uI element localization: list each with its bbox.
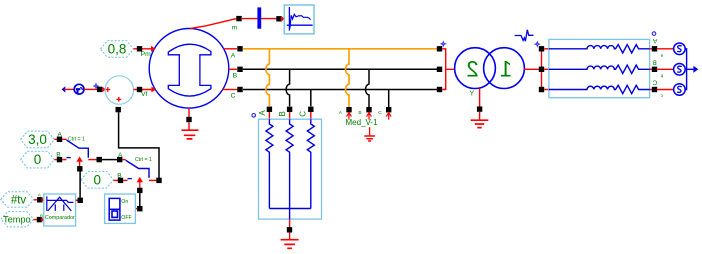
arrow into Vf pin bbox=[151, 87, 156, 93]
node on/off out bbox=[137, 206, 142, 211]
svg-text:1: 1 bbox=[500, 57, 512, 82]
svg-text:OFF: OFF bbox=[121, 215, 131, 221]
node exciter input bbox=[97, 87, 102, 92]
stub secondary A bbox=[544, 48, 549, 50]
tap wire C to meter bbox=[388, 90, 390, 108]
stub 0 to node bbox=[54, 159, 58, 161]
node bus right B bbox=[437, 67, 442, 72]
machine neutral wire bbox=[188, 108, 190, 117]
node source control bbox=[116, 107, 121, 112]
svg-text:0,8: 0,8 bbox=[108, 42, 127, 57]
stub RL out B bbox=[650, 68, 657, 70]
node secondary A bbox=[539, 46, 544, 51]
wire machine top to m node bbox=[190, 19, 237, 29]
arrow into source bbox=[102, 87, 106, 92]
svg-text:On: On bbox=[121, 199, 128, 205]
node switch2 B bbox=[118, 178, 123, 183]
svg-text:a: a bbox=[660, 53, 663, 58]
marker sparkle (bus right) bbox=[441, 42, 445, 46]
scope/plot block bbox=[284, 5, 314, 34]
wire transformer neutral bbox=[479, 88, 481, 107]
transformer primary riser wire bbox=[442, 49, 455, 90]
node ctrl1 junction bbox=[77, 166, 82, 171]
svg-text:Comparador: Comparador bbox=[45, 215, 75, 221]
node load B bbox=[287, 107, 292, 112]
svg-text:A: A bbox=[58, 132, 63, 139]
svg-text:A: A bbox=[652, 37, 657, 44]
node A bbox=[237, 46, 242, 51]
ground reference (Med_V-1) bbox=[364, 127, 375, 141]
machine pin stub A bbox=[224, 48, 238, 50]
value label 0 (switch2 B) bbox=[81, 172, 114, 189]
svg-text:Med_V-1: Med_V-1 bbox=[346, 118, 379, 127]
AC source Vb bbox=[674, 64, 686, 76]
svg-text:#tv: #tv bbox=[11, 195, 27, 207]
load feeder stub B bbox=[289, 112, 291, 119]
wire to source C bbox=[657, 89, 674, 91]
bus wire A (orange) bbox=[243, 48, 437, 50]
wire transformer secondary bbox=[524, 68, 539, 70]
node transformer neutral bbox=[477, 106, 482, 111]
wire to source B bbox=[657, 68, 674, 70]
node RL out C bbox=[652, 87, 657, 92]
polarity + (left) bbox=[105, 87, 110, 92]
svg-text:B: B bbox=[278, 111, 287, 116]
transformer T1 winding 1 bbox=[484, 48, 525, 89]
svg-text:C: C bbox=[378, 110, 382, 116]
node load C bbox=[308, 107, 313, 112]
meter probe B bbox=[367, 113, 372, 120]
wire Pm bbox=[134, 48, 152, 50]
data tap bar bbox=[257, 7, 261, 28]
stub secondary C bbox=[544, 89, 549, 91]
stub RL out C bbox=[650, 89, 657, 91]
node meter C bbox=[386, 107, 391, 112]
meter probe A (red arrow) bbox=[347, 113, 352, 120]
svg-text:C: C bbox=[231, 93, 236, 100]
svg-text:Ctrl = 1: Ctrl = 1 bbox=[68, 136, 85, 142]
wire ctrl2 to on/off bbox=[139, 193, 141, 206]
node switch2 A bbox=[117, 157, 122, 162]
on/off switch block bbox=[105, 194, 136, 223]
node meter A bbox=[346, 107, 351, 112]
switch1 B contact bbox=[67, 157, 71, 159]
node m bbox=[236, 16, 241, 21]
wire to ground bbox=[188, 122, 190, 130]
switch2 B contact bbox=[128, 178, 132, 180]
svg-text:m: m bbox=[232, 24, 238, 31]
marker sparkle bbox=[94, 84, 98, 88]
switch2 control arrow bbox=[138, 178, 143, 188]
load feeder stub A bbox=[268, 112, 270, 119]
node comparator A bbox=[37, 197, 42, 202]
secondary riser wire bbox=[541, 49, 543, 90]
signal label #tv bbox=[1, 192, 34, 208]
wire meter to node bbox=[84, 88, 97, 90]
node secondary B bbox=[539, 67, 544, 72]
load star point wire bbox=[269, 209, 310, 220]
node RL out B bbox=[652, 67, 657, 72]
switch1 control arrow bbox=[77, 157, 82, 166]
value label 0,8 (Pm setpoint capsule) bbox=[101, 41, 134, 58]
breaker squiggle icon bbox=[515, 30, 534, 41]
node load neutral bbox=[287, 227, 292, 232]
wire to source A bbox=[657, 48, 674, 50]
marker circle (RL right) bbox=[652, 32, 656, 36]
switch1 output stub bbox=[88, 159, 97, 161]
node switch1 B bbox=[57, 157, 62, 162]
node bus right A bbox=[437, 46, 442, 51]
ground (transformer) bbox=[471, 120, 489, 127]
svg-text:B: B bbox=[358, 110, 361, 116]
stub 3,0 to node bbox=[54, 138, 58, 140]
tap wire C to load bbox=[310, 90, 312, 107]
switch2 wiper bbox=[126, 160, 149, 178]
svg-text:B: B bbox=[56, 152, 61, 159]
bus wire C bbox=[243, 89, 437, 91]
resistor load phase B bbox=[286, 119, 293, 208]
node switch2 out bbox=[156, 178, 161, 183]
node meter B bbox=[366, 107, 371, 112]
svg-text:0: 0 bbox=[34, 152, 42, 167]
RL branch A (inductor + resistor) bbox=[549, 45, 650, 53]
RL branch B bbox=[549, 65, 650, 73]
switch1 B stub bbox=[62, 159, 66, 161]
svg-text:A: A bbox=[231, 52, 236, 59]
node ctrl2 junction bbox=[137, 188, 142, 193]
switch2 B stub bbox=[123, 179, 127, 181]
machine pin stub C bbox=[223, 89, 238, 91]
svg-text:C: C bbox=[652, 78, 657, 85]
RL branch C bbox=[549, 85, 650, 93]
source common wire bbox=[685, 49, 693, 90]
svg-text:0: 0 bbox=[94, 172, 102, 187]
meter M1 (circled glyph) bbox=[74, 84, 84, 94]
svg-text:A: A bbox=[258, 110, 267, 116]
svg-text:2: 2 bbox=[466, 57, 478, 82]
svg-text:b: b bbox=[660, 74, 663, 79]
wire load neutral bbox=[289, 219, 291, 227]
wire m to scope bbox=[242, 18, 277, 20]
stub secondary B bbox=[544, 68, 549, 70]
wire to load ground bbox=[289, 233, 291, 240]
svg-text:B: B bbox=[233, 72, 238, 79]
switch1 wiper bbox=[67, 140, 89, 158]
stub #tv to node bbox=[34, 199, 38, 201]
node Vf bbox=[137, 87, 142, 92]
node Pm bbox=[137, 46, 142, 51]
svg-text:Vf: Vf bbox=[141, 91, 148, 98]
arrow into comparator B bbox=[41, 217, 44, 222]
stub Tempo to node bbox=[34, 219, 38, 221]
output arrow (right) bbox=[693, 66, 698, 73]
value label 3,0 bbox=[21, 131, 55, 148]
node C bbox=[237, 87, 242, 92]
wire to meter bbox=[65, 88, 75, 90]
meter probe C bbox=[386, 113, 391, 120]
value label 0 (switch1 B) bbox=[21, 151, 55, 168]
wire source right bbox=[134, 89, 153, 91]
node secondary C bbox=[539, 87, 544, 92]
node comparator B bbox=[37, 217, 42, 222]
resistor load phase C bbox=[307, 119, 314, 208]
signal label Tempo bbox=[1, 212, 34, 227]
svg-text:Y: Y bbox=[470, 91, 475, 98]
load feeder stub C bbox=[310, 112, 312, 119]
svg-text:Ctrl = 1: Ctrl = 1 bbox=[135, 157, 152, 163]
arrow into Pm pin bbox=[151, 46, 156, 52]
stub RL out A bbox=[650, 48, 657, 50]
node bus right C bbox=[437, 87, 442, 92]
bus wire B bbox=[243, 68, 437, 70]
marker sparkle (transformer right) bbox=[535, 42, 539, 46]
wire to transformer ground bbox=[479, 112, 481, 120]
AC source Vc bbox=[674, 84, 686, 96]
node switch1 A bbox=[57, 137, 62, 142]
arrow into comparator A bbox=[42, 197, 45, 202]
switch2 output stub bbox=[149, 179, 157, 181]
source E1 (controlled voltage source circle) bbox=[105, 76, 133, 104]
tap wire B to meter bbox=[366, 69, 369, 107]
switch1 A stub bbox=[62, 138, 66, 140]
svg-text:Tempo: Tempo bbox=[3, 214, 31, 224]
transformer T1 winding 2 bbox=[455, 48, 496, 89]
tap wire A to meter (orange with jogs) bbox=[346, 49, 349, 107]
load block (3-phase resistive load) bbox=[259, 119, 322, 219]
wire switch1 out to switch2 A bbox=[102, 159, 117, 161]
polarity + (bottom) bbox=[116, 97, 121, 102]
comparator output stub bbox=[76, 199, 78, 201]
ground (machine) bbox=[182, 130, 199, 139]
wire Vf-source control path bbox=[119, 112, 159, 178]
svg-text:C: C bbox=[299, 111, 308, 117]
svg-text:A: A bbox=[118, 152, 123, 159]
node load A bbox=[267, 107, 272, 112]
RL line block (3-phase) bbox=[549, 39, 650, 97]
svg-text:B: B bbox=[652, 58, 657, 65]
signal arrow (exciter output, pointing left) bbox=[62, 86, 66, 92]
svg-text:B: B bbox=[117, 173, 122, 180]
switch2 A stub bbox=[122, 159, 125, 161]
arrow into scope bbox=[281, 16, 285, 22]
AC source Va bbox=[674, 43, 686, 55]
tap wire A to load (orange with jogs) bbox=[266, 49, 269, 107]
svg-text:B: B bbox=[40, 213, 43, 218]
wire comparator out to ctrl1 bbox=[79, 171, 81, 197]
tap wire B to load bbox=[286, 69, 289, 106]
node B bbox=[237, 67, 242, 72]
machine pin stub B bbox=[229, 68, 238, 70]
stub on/off out bbox=[135, 208, 137, 210]
marker circle (load block) bbox=[252, 114, 256, 118]
node scope input bbox=[276, 16, 281, 21]
node switch1 out bbox=[97, 157, 102, 162]
comparator block bbox=[44, 194, 76, 226]
stub 0 to node bbox=[114, 179, 119, 181]
node RL out A bbox=[652, 46, 657, 51]
node comparator out bbox=[78, 198, 83, 203]
ground (load) bbox=[281, 240, 299, 249]
resistor load phase A bbox=[266, 119, 273, 208]
svg-text:Pm: Pm bbox=[141, 51, 152, 58]
node machine neutral bbox=[186, 117, 191, 122]
svg-text:3,0: 3,0 bbox=[28, 132, 47, 147]
synchronous machine G1 bbox=[149, 29, 229, 109]
